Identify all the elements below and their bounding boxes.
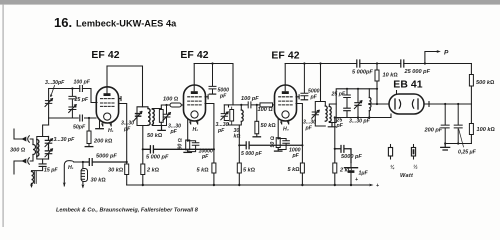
svg-text:16.: 16. <box>54 15 72 30</box>
tube V2 cathode lead <box>187 119 189 140</box>
bus end arrow <box>369 184 373 187</box>
ground (cathode V2) <box>184 151 191 153</box>
svg-text:5 000 pF: 5 000 pF <box>146 155 169 161</box>
capacitor 0.25 uF <box>454 104 462 143</box>
electrolytic 1uF <box>345 163 359 186</box>
svg-text:+: + <box>376 183 379 189</box>
svg-text:2 kΩ: 2 kΩ <box>146 168 160 174</box>
svg-text:¼: ¼ <box>390 165 395 171</box>
svg-text:300 Ω: 300 Ω <box>10 148 26 154</box>
ground (antenna choke) <box>31 184 33 187</box>
svg-text:200 pF: 200 pF <box>424 128 443 134</box>
resistor 90 ohm (cathode V2) <box>186 140 190 150</box>
svg-text:P: P <box>444 50 449 57</box>
trimmer capacitor below 25pF <box>69 105 77 118</box>
wire T1 secondary to grid resistor <box>161 105 170 109</box>
T2 trimmer <box>221 105 229 121</box>
bottom wire stage1 <box>49 117 96 119</box>
svg-text:3...30 pF: 3...30 pF <box>54 137 76 143</box>
heater down arrow right <box>81 184 84 188</box>
tube V2 anode <box>191 91 198 94</box>
tube V2 EF42 envelope <box>184 85 206 121</box>
svg-text:pF: pF <box>310 95 318 101</box>
svg-text:100 Ω: 100 Ω <box>258 107 274 113</box>
svg-text:pF: pF <box>123 127 131 133</box>
tube V1 anode <box>104 93 111 96</box>
screen wire V2 to rail <box>205 104 214 186</box>
trimmer capacitor upper (3..30pF) <box>45 137 53 148</box>
tube V2 heater pins <box>191 120 198 124</box>
junction bus AF rail <box>334 184 336 186</box>
svg-text:100 kΩ: 100 kΩ <box>477 127 496 133</box>
heater feed wire with hop H1 <box>64 161 83 186</box>
label pointer to rail trimmer <box>51 86 55 97</box>
detector tap wire to EB41 <box>369 103 389 105</box>
resistor 200 kohm <box>88 118 90 131</box>
resistor 100 ohm (grid stopper V3) <box>257 104 260 106</box>
svg-text:½: ½ <box>413 164 418 171</box>
svg-text:Lembeck-UKW-AES 4a: Lembeck-UKW-AES 4a <box>76 19 177 29</box>
legend resistor 1/2 Watt <box>411 145 418 171</box>
tube V1 EF42 envelope <box>96 87 118 123</box>
anode wire V3 / HT rail <box>285 63 357 65</box>
detector coil (tertiary) <box>368 89 371 119</box>
junction 10k <box>376 62 378 64</box>
right subcircuit top wire <box>445 103 471 105</box>
junction grid wire <box>71 87 73 89</box>
T1 primary coil <box>148 109 150 126</box>
trimmer capacitor on left rail <box>45 99 53 107</box>
svg-text:pF: pF <box>292 153 300 159</box>
T2 bottom rail <box>238 125 240 185</box>
junction grid node V3 <box>256 104 258 106</box>
detector bottom wire <box>336 117 391 119</box>
svg-text:500 kΩ: 500 kΩ <box>476 80 495 86</box>
resistor 5 kohm (rail V3) <box>300 163 304 173</box>
svg-text:Lembeck & Co., Braunschweig, F: Lembeck & Co., Braunschweig, Fallerslebe… <box>56 208 199 214</box>
junction bus rail V3 <box>301 184 303 186</box>
V4 right pin <box>424 102 429 107</box>
T1 primary bottom to rail <box>142 126 144 186</box>
svg-text:50 kΩ: 50 kΩ <box>147 133 163 139</box>
svg-text:10 kΩ: 10 kΩ <box>383 73 399 79</box>
T1 secondary loop <box>152 109 161 126</box>
detector top wire <box>336 89 377 104</box>
ground (T1 secondary) <box>158 126 165 131</box>
screen wire V3 to rail <box>296 104 302 186</box>
junction bus electrolytic <box>350 184 352 186</box>
ground (T3) <box>328 123 335 127</box>
svg-text:pF: pF <box>201 154 209 160</box>
capacitor 1000 pF (cathode bypass V3) <box>277 138 289 150</box>
T3 secondary loop <box>329 104 336 123</box>
capacitor 5000 pF (anode bypass V2) <box>209 62 216 94</box>
T3 trimmer <box>312 110 319 118</box>
tube V1 grids (dashed) <box>101 99 115 107</box>
tube V1 cathode lead to ground <box>99 121 101 129</box>
svg-text:100 Ω: 100 Ω <box>163 97 179 103</box>
V4 pin stubs <box>391 91 397 118</box>
tube V3 grids <box>279 97 293 105</box>
wire 15pF branch <box>42 159 44 164</box>
output tap P <box>424 50 441 65</box>
resistor 5 kohm (rail2) <box>212 163 216 173</box>
bandfilter T2 loop <box>229 105 242 125</box>
tube V3 EF42 envelope <box>275 85 297 121</box>
junction heater wire on rail2 <box>213 148 215 150</box>
svg-text:100 pF: 100 pF <box>241 96 259 102</box>
tube V2 cathode <box>191 111 198 118</box>
capacitor 50 pF series (bottom wire) <box>79 115 84 121</box>
chassis bus line <box>127 184 372 186</box>
resistor 50 kohm (grid leak V3) <box>253 105 260 137</box>
capacitor 5000 pF (AF rail bypass) <box>334 146 351 163</box>
resistor 2 kohm (T1 rail) <box>141 164 145 175</box>
resistor 90 ohm (cathode V3) <box>276 138 280 148</box>
anode wire V1 to transformer1 <box>107 66 143 107</box>
antenna choke with core <box>32 172 37 184</box>
capacitor 200 pF <box>441 104 449 144</box>
svg-text:25 pF: 25 pF <box>74 97 89 103</box>
antenna coupling coil primary <box>30 139 33 161</box>
T1 secondary coil <box>152 109 154 125</box>
pointer 0.25uF <box>459 130 464 148</box>
tube V1 screen stub <box>119 97 121 101</box>
capacitor 5000 pF (heater bypass) <box>83 159 127 166</box>
T3 primary loop <box>315 102 325 127</box>
svg-text:5 kΩ: 5 kΩ <box>197 168 210 174</box>
capacitor 25 pF upper (detector) <box>344 88 351 108</box>
junction bus T2 rail <box>238 184 240 186</box>
legend resistor 1/4 Watt <box>388 145 395 171</box>
tube V3 anode <box>282 91 289 94</box>
ground (right subcircuit) <box>441 144 450 151</box>
trimmer capacitor lower <box>45 148 53 160</box>
V4 diode 2 <box>417 99 419 109</box>
svg-text:5 000 pF: 5 000 pF <box>241 151 263 157</box>
junction rail/heater cap <box>126 161 128 163</box>
antenna plug upper <box>23 137 26 140</box>
screen wire V1 to rail <box>119 104 127 186</box>
svg-text:H₁: H₁ <box>108 128 114 134</box>
right subcircuit bottom wire <box>445 143 471 145</box>
svg-text:pF: pF <box>336 123 344 129</box>
svg-text:5 kΩ: 5 kΩ <box>288 167 301 173</box>
svg-text:3...30 pF: 3...30 pF <box>349 119 371 125</box>
V4 diode 1 <box>394 99 396 109</box>
svg-text:pF: pF <box>305 126 313 132</box>
svg-text:EB 41: EB 41 <box>393 80 422 91</box>
tube V3 screen stub <box>296 95 299 99</box>
resistor 100 ohm (grid stopper V2) <box>170 103 181 107</box>
svg-text:100 pF: 100 pF <box>74 80 91 86</box>
capacitor 25 pF <box>69 89 76 107</box>
svg-text:pF: pF <box>219 94 227 100</box>
capacitor 15 pF <box>39 164 46 167</box>
T3 primary coil <box>325 106 327 121</box>
capacitor 100 pF series <box>80 86 83 92</box>
antenna stub lower wire <box>14 161 23 174</box>
antenna stub upper wire <box>14 129 23 139</box>
page top border bar <box>0 0 500 5</box>
svg-text:5 000pF: 5 000pF <box>352 70 373 76</box>
anode wire V2 <box>194 64 233 105</box>
capacitor 5000 pF (screen decoupling V3) <box>238 142 303 149</box>
junction bus T1 rail <box>142 184 144 186</box>
svg-text:Watt: Watt <box>400 173 414 179</box>
svg-text:EF 42: EF 42 <box>271 51 299 62</box>
resistor 50 kohm (in T1 secondary) <box>159 110 163 123</box>
svg-text:25 pF: 25 pF <box>331 92 346 98</box>
antenna plug lower <box>23 159 26 162</box>
svg-text:5000 pF: 5000 pF <box>96 154 117 160</box>
resistor 500 kohm <box>470 64 472 75</box>
junction detector feed <box>319 62 321 64</box>
svg-text:0,25 μF: 0,25 μF <box>458 150 477 156</box>
T3 secondary coil <box>329 107 331 122</box>
AF rail from detector <box>335 118 336 186</box>
svg-text:H₁: H₁ <box>68 165 74 171</box>
grid-circuit left rail <box>48 89 50 126</box>
resistor 2 kohm (AF rail) <box>333 163 337 173</box>
capacitor 25 pF lower (detector) <box>344 108 351 117</box>
tube V3 cathode lead <box>277 119 279 138</box>
svg-text:25 000 pF: 25 000 pF <box>404 69 431 75</box>
resistor 30 kohm (screen rail V1) <box>125 164 129 175</box>
heater choke (screened) <box>81 162 87 187</box>
wire loop top to grid rail <box>43 125 49 137</box>
svg-text:pF: pF <box>170 129 178 135</box>
ground (cathode V3) <box>275 150 282 152</box>
junction heater node <box>82 161 84 163</box>
svg-text:H₃: H₃ <box>283 127 289 133</box>
resistor 30 kohm (in T2) <box>230 110 234 122</box>
capacitor 25000 pF (series) <box>401 60 404 67</box>
junction bottom wire <box>88 117 90 119</box>
svg-text:H₂: H₂ <box>193 127 199 133</box>
grid wire stage1 <box>49 89 97 103</box>
capacitor 100 pF (coupling to V3) <box>241 102 256 108</box>
tube V2 grids <box>188 97 202 105</box>
antenna tuned loop <box>37 137 49 160</box>
IF transformer T1 primary loop <box>137 107 148 126</box>
resistor 5 kohm (T2 rail) <box>237 163 241 173</box>
svg-text:15 pF: 15 pF <box>44 168 58 174</box>
svg-text:pF: pF <box>217 128 225 134</box>
svg-text:3...30pF: 3...30pF <box>45 80 65 86</box>
svg-text:30 kΩ: 30 kΩ <box>91 178 107 184</box>
T1 primary trimmer <box>134 112 142 122</box>
svg-text:1μF: 1μF <box>359 171 369 177</box>
resistor 10 kohm <box>376 64 378 71</box>
tube V3 heater pins <box>282 120 289 124</box>
resistor 100 kohm <box>470 104 472 123</box>
capacitor 5000 pF (anode bypass V3) <box>301 62 308 99</box>
ratio detector transformer T3 feed <box>320 64 322 102</box>
ground (200k) <box>85 146 93 148</box>
svg-text:5 kΩ: 5 kΩ <box>243 168 256 174</box>
tube V1 cathode <box>104 113 111 120</box>
phase trimmer 3...30 pF (detector) <box>354 88 362 119</box>
svg-text:90 Ω: 90 Ω <box>178 138 184 149</box>
capacitor 5000 pF (series HT) <box>357 60 360 67</box>
tube V3 cathode <box>282 111 289 118</box>
tube V2 screen stub <box>205 95 208 99</box>
tube V4 EB41 envelope <box>389 94 424 114</box>
trimmer 3...30 pF (T1 output) <box>161 104 170 126</box>
svg-text:200 kΩ: 200 kΩ <box>93 139 113 145</box>
svg-text:+: + <box>355 177 358 183</box>
svg-text:5000 pF: 5000 pF <box>341 154 362 160</box>
heater down arrow left <box>63 182 66 186</box>
T2 coil <box>241 110 243 121</box>
capacitor 10000 pF (cathode bypass V2) <box>187 140 199 152</box>
svg-text:90 Ω: 90 Ω <box>270 136 276 147</box>
junction bus rail2 <box>213 184 215 186</box>
svg-text:50pF: 50pF <box>73 125 86 131</box>
page left border line <box>2 5 3 227</box>
antenna coil secondary <box>37 140 39 157</box>
junction T2 top / coupling <box>240 104 242 106</box>
svg-text:30 kΩ: 30 kΩ <box>108 168 124 174</box>
svg-text:EF 42: EF 42 <box>180 50 208 61</box>
svg-text:50 kΩ: 50 kΩ <box>261 123 277 129</box>
svg-text:EF 42: EF 42 <box>91 50 119 61</box>
capacitor 5000 pF (screen decoupling) <box>143 146 214 153</box>
tube V1 heater pins <box>103 123 111 126</box>
